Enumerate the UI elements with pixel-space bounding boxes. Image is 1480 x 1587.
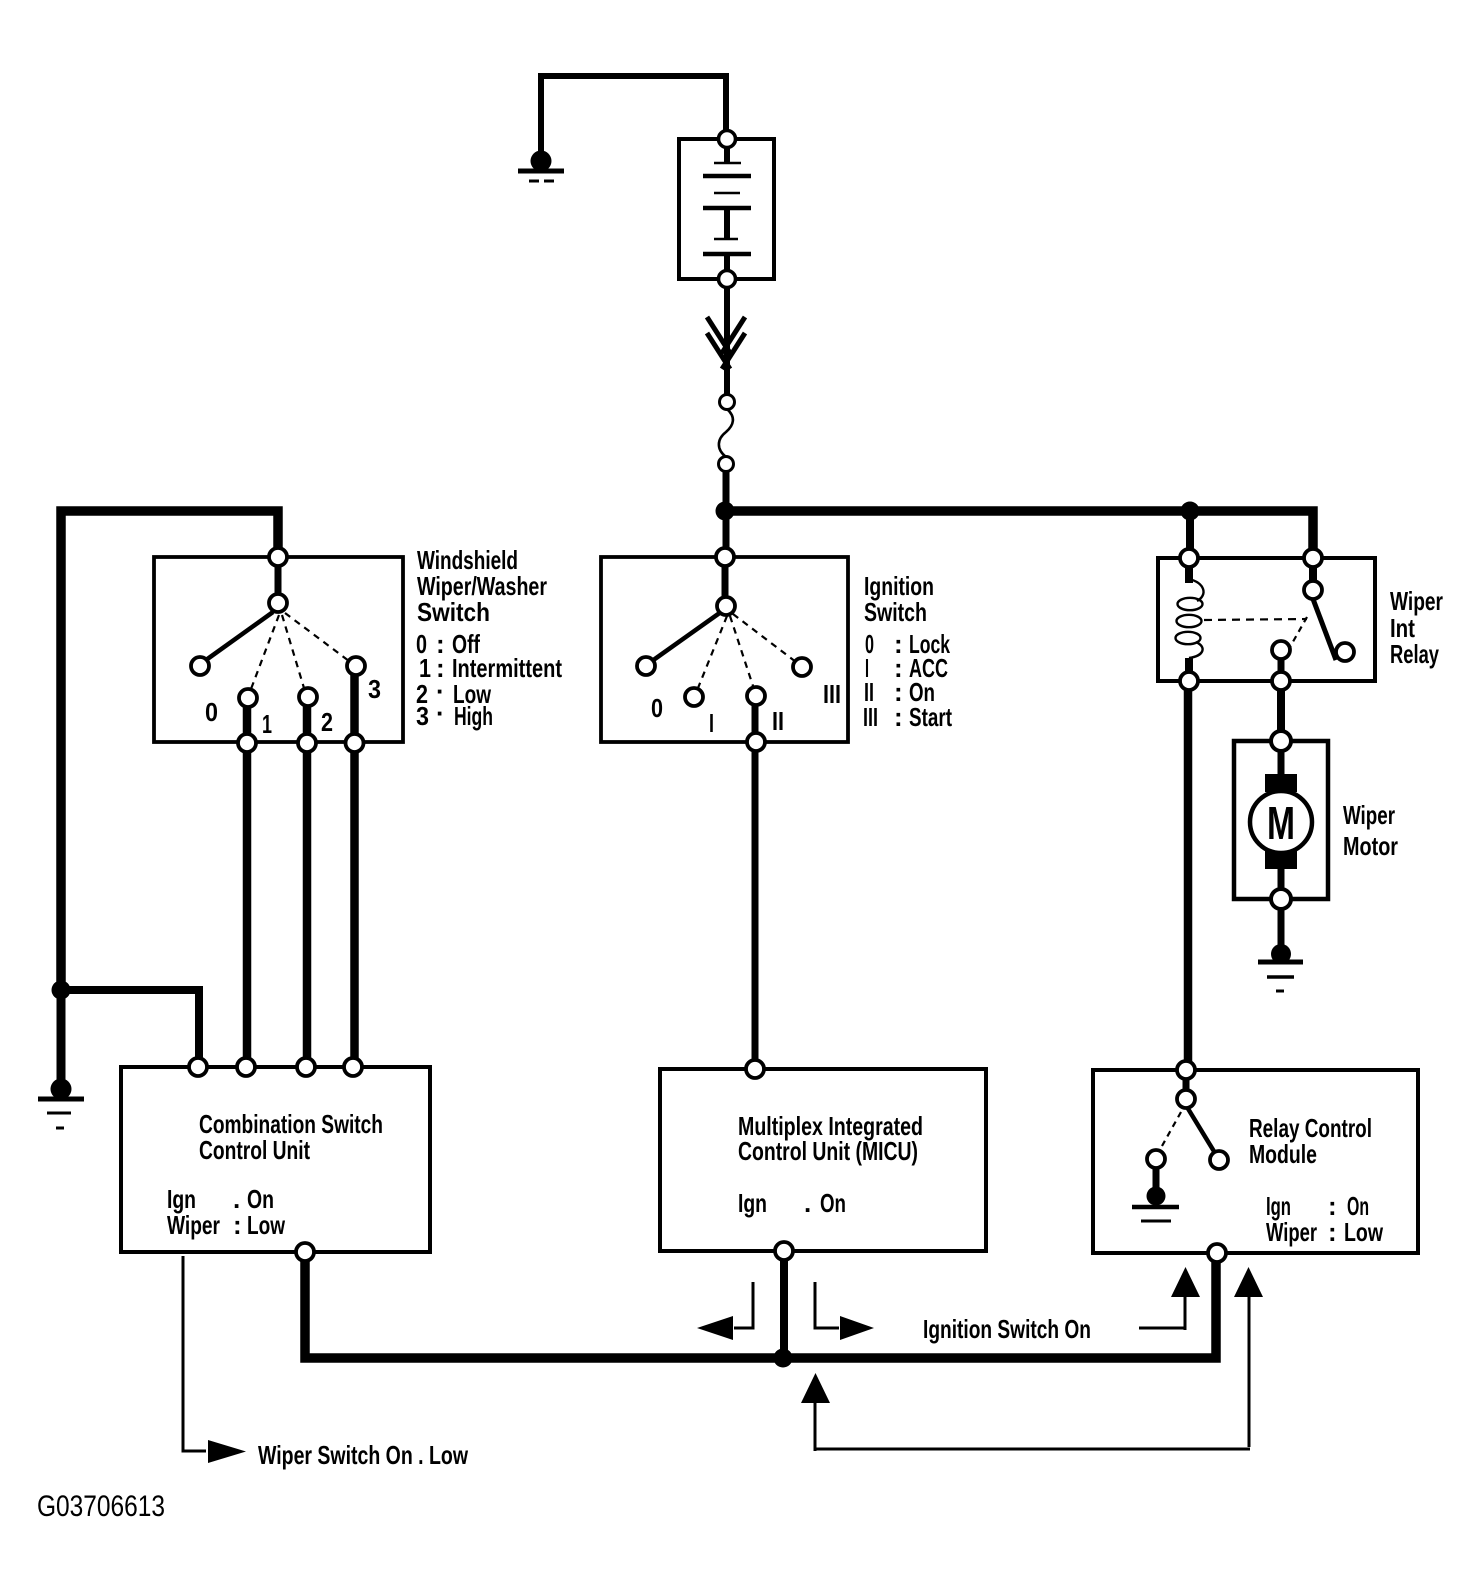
svg-text:Switch: Switch [864, 597, 927, 627]
svg-text:Motor: Motor [1343, 831, 1398, 861]
svg-text:3: 3 [416, 701, 429, 731]
svg-text::: : [1328, 1217, 1337, 1247]
svg-text:High: High [454, 701, 493, 731]
svg-text:Ign: Ign [738, 1188, 767, 1218]
svg-text:Wiper: Wiper [1343, 800, 1395, 830]
svg-text:3: 3 [368, 674, 381, 704]
svg-text:2: 2 [321, 707, 333, 737]
svg-text:On: On [820, 1188, 846, 1218]
svg-text:1: 1 [262, 709, 272, 739]
svg-text:Control Unit (MICU): Control Unit (MICU) [738, 1136, 918, 1166]
svg-text:II: II [772, 706, 784, 736]
svg-text:M: M [1267, 797, 1295, 849]
svg-text:Wiper: Wiper [1266, 1217, 1317, 1247]
svg-text:Module: Module [1249, 1139, 1317, 1169]
svg-text::: : [233, 1210, 242, 1240]
svg-text:0: 0 [205, 697, 218, 727]
svg-text:Low: Low [1344, 1217, 1384, 1247]
svg-text:Switch: Switch [417, 597, 490, 627]
svg-text:Ignition Switch On: Ignition Switch On [923, 1314, 1091, 1344]
svg-text:Start: Start [909, 702, 952, 732]
svg-text:III: III [823, 679, 841, 709]
svg-text:.: . [804, 1188, 811, 1218]
svg-text:Low: Low [247, 1210, 286, 1240]
svg-text:·: · [436, 698, 445, 728]
svg-text:0: 0 [651, 693, 663, 723]
svg-text::: : [894, 702, 903, 732]
svg-text:III: III [863, 702, 878, 732]
svg-text:Wiper Switch On . Low: Wiper Switch On . Low [258, 1440, 469, 1470]
svg-text:Wiper: Wiper [1390, 586, 1443, 616]
svg-text:Relay: Relay [1390, 639, 1439, 669]
svg-text:G03706613: G03706613 [37, 1490, 165, 1523]
svg-text:I: I [709, 708, 714, 738]
svg-text:Control Unit: Control Unit [199, 1135, 310, 1165]
svg-text:Wiper: Wiper [167, 1210, 220, 1240]
